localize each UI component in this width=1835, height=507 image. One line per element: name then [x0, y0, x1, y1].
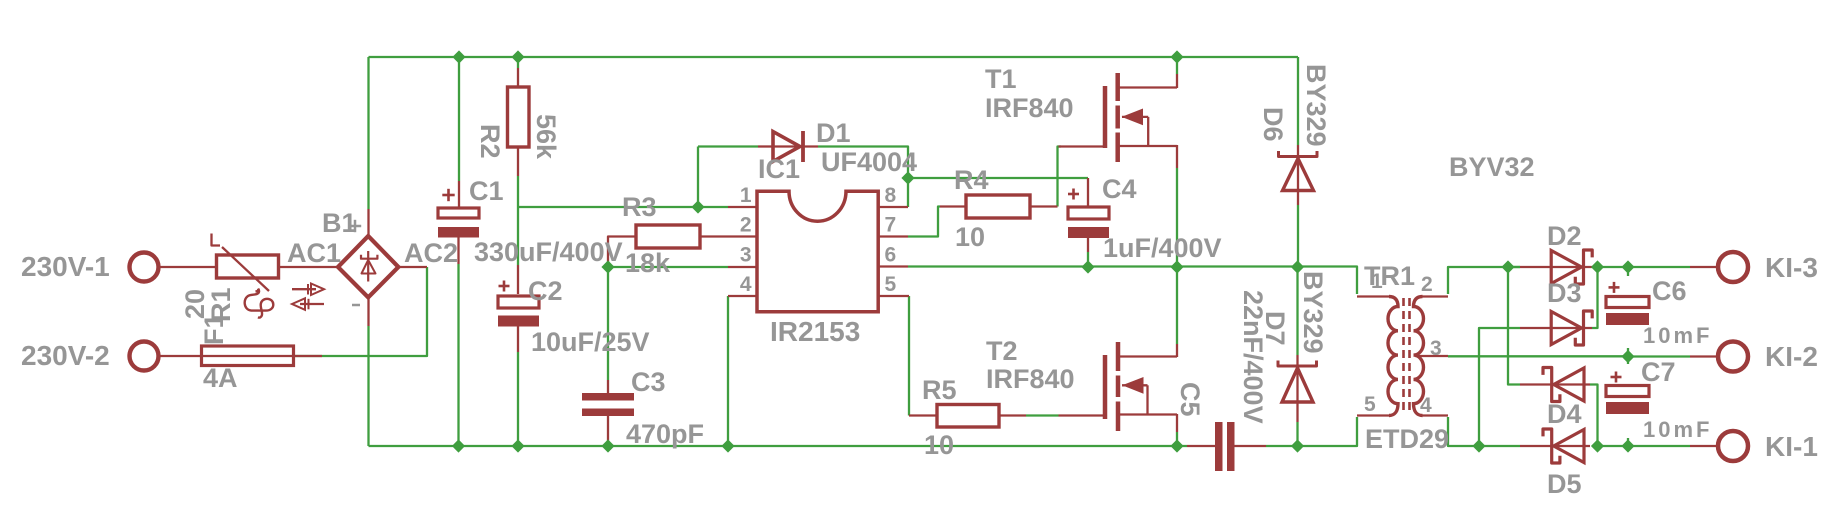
- capacitor C4 top plate: [1068, 207, 1109, 219]
- lead R3 left elbow: [608, 237, 636, 266]
- svg-text:KI-1: KI-1: [1765, 431, 1818, 462]
- wire fuse row: [294, 355, 322, 357]
- junction node 9: [1291, 260, 1304, 273]
- junction node 12: [1621, 260, 1634, 273]
- wire R3 node drop to C3: [607, 267, 609, 380]
- diode D3: [1551, 312, 1581, 345]
- lead TR1 pin4: [1423, 414, 1449, 416]
- lead pad KI-1: [1690, 445, 1717, 447]
- wire D1 cathode to VB corner: [818, 147, 908, 208]
- junction node 7: [1081, 260, 1094, 273]
- lead T1 drain top: [1176, 74, 1178, 88]
- junction node 10: [1501, 260, 1514, 273]
- wire pin5 drop to R5: [908, 296, 910, 416]
- wire R2 bottom to node: [517, 176, 519, 207]
- junction node 3: [1170, 50, 1183, 63]
- lead D5 through: [1545, 445, 1590, 447]
- svg-text:2: 2: [1421, 273, 1433, 296]
- lead D2 through: [1552, 266, 1592, 268]
- svg-text:56k: 56k: [531, 114, 561, 160]
- svg-text:4: 4: [1420, 394, 1432, 417]
- transistor T1 drain lead: [1118, 86, 1177, 88]
- lead D3 anode: [1520, 327, 1552, 329]
- bridge B1 inner diode: [367, 251, 369, 282]
- resistor R5 body: [937, 405, 999, 428]
- svg-text:1uF/400V: 1uF/400V: [1103, 233, 1222, 263]
- wire D5 row: [1479, 445, 1520, 447]
- svg-text:6: 6: [885, 244, 897, 267]
- wire B1 plus riser: [367, 57, 369, 209]
- capacitor C1 bottom plate: [438, 227, 479, 238]
- junction node 16: [721, 439, 734, 452]
- lead pad KI-2: [1690, 355, 1717, 357]
- junction node 8: [1170, 260, 1183, 273]
- lead C4 top stub: [1087, 178, 1089, 207]
- wire C7 top link: [1627, 357, 1629, 365]
- wire TR1 pin3 tap row: [1448, 355, 1628, 357]
- capacitor C2 bottom plate: [498, 316, 539, 327]
- diode D6 triangle: [1283, 159, 1314, 191]
- lead TR1 pin3 tap: [1415, 355, 1448, 357]
- svg-text:AC1: AC1: [287, 238, 341, 268]
- capacitor C3 top plate: [582, 393, 634, 401]
- svg-text:C5: C5: [1175, 382, 1205, 417]
- svg-text:R3: R3: [622, 192, 657, 222]
- capacitor C6 plus: [1609, 286, 1620, 289]
- lead IC pin4: [728, 295, 757, 297]
- svg-text:230V-1: 230V-1: [21, 251, 110, 282]
- transistor T2 drain lead: [1118, 355, 1177, 357]
- lead C5 left stub: [1187, 445, 1215, 447]
- wire C4 bottom to VS: [1087, 252, 1089, 267]
- fuse F1 body: [202, 346, 294, 366]
- svg-text:8: 8: [885, 184, 897, 207]
- svg-text:T2: T2: [986, 336, 1018, 366]
- svg-text:22nF/400V: 22nF/400V: [1238, 290, 1268, 424]
- svg-text:1: 1: [1371, 270, 1383, 293]
- wire VB node to C4 top: [908, 177, 1088, 179]
- svg-text:D2: D2: [1547, 221, 1582, 251]
- svg-text:10mF: 10mF: [1643, 417, 1712, 442]
- wire KI-1 lead: [1628, 445, 1690, 447]
- capacitor C4 plus: [1068, 193, 1079, 196]
- lead D4 cathode: [1520, 383, 1545, 385]
- lead IC pin8: [878, 206, 908, 208]
- transistor T2 source lead: [1118, 413, 1177, 415]
- wire C1 top riser: [458, 57, 460, 181]
- lead R4 right stub: [1030, 205, 1058, 207]
- capacitor C1 plus: [442, 194, 454, 197]
- bridge B1 diamond: [338, 236, 398, 297]
- pad KI-2: [1718, 342, 1748, 372]
- wire pin4-node riser to D3: [1479, 328, 1520, 446]
- svg-text:IRF840: IRF840: [986, 364, 1075, 394]
- transformer TR1 primary coil: [1388, 297, 1398, 416]
- thermistor R1 body: [217, 255, 279, 278]
- lead TR1 pin1: [1357, 295, 1389, 297]
- capacitor C5 right plate: [1227, 422, 1235, 471]
- svg-text:KI-3: KI-3: [1765, 252, 1818, 283]
- lead R2 bottom stub: [517, 146, 519, 176]
- svg-text:C6: C6: [1652, 276, 1687, 306]
- svg-text:ETD29: ETD29: [1365, 424, 1449, 454]
- svg-text:C4: C4: [1102, 174, 1137, 204]
- wire T1 source drop: [1176, 168, 1178, 267]
- capacitor C6 top plate: [1606, 297, 1649, 308]
- junction node 14: [511, 439, 524, 452]
- junction node 18: [1291, 439, 1304, 452]
- diode D1 triangle: [773, 132, 800, 162]
- lead pad KI-3: [1690, 266, 1717, 268]
- lead IC pin3: [728, 266, 757, 268]
- wire R5 to T2 gate link: [1026, 414, 1059, 416]
- capacitor C7 top plate: [1606, 386, 1649, 397]
- resistor R4 body: [966, 195, 1030, 218]
- lead T2 source bottom: [1176, 414, 1178, 432]
- wire pin4 drop to ground: [727, 296, 729, 446]
- junction node 21: [1621, 439, 1634, 452]
- wire KI-2 lead: [1628, 355, 1690, 357]
- lead B1 AC2 stub: [397, 266, 427, 268]
- wire primary return riser: [1298, 417, 1357, 446]
- lead B1 plus stub: [367, 209, 369, 237]
- svg-text:5: 5: [1364, 393, 1376, 416]
- lead TR1 pin5: [1357, 414, 1389, 416]
- wire C1 bottom drop: [457, 264, 459, 446]
- wire T2 drain riser: [1176, 267, 1178, 344]
- lead F1 right stub: [294, 355, 322, 357]
- svg-text:D3: D3: [1547, 278, 1582, 308]
- capacitor C4 bottom plate: [1068, 227, 1109, 238]
- svg-text:BYV32: BYV32: [1449, 152, 1535, 182]
- lead IC pin7: [878, 235, 908, 237]
- wire TR1 pin2 riser: [1448, 267, 1520, 294]
- lead C1 bottom stub: [457, 237, 459, 264]
- wire D1 anode lead: [698, 145, 758, 147]
- wire KI-3 lead: [1628, 266, 1690, 268]
- lead R3 right / IC pin2: [700, 235, 757, 237]
- lead IC pin6: [878, 265, 908, 267]
- wire D3 cathode elbow: [1592, 267, 1598, 328]
- lead C3 top stub: [607, 380, 609, 393]
- diode D7 through line: [1296, 366, 1298, 402]
- wire D2 cathode to C6 node: [1592, 266, 1628, 268]
- transformer TR1 core: [1402, 298, 1405, 414]
- lead D7 bottom stub: [1296, 402, 1298, 422]
- wire node to C2: [517, 207, 519, 265]
- wire D4 anode elbow: [1590, 385, 1598, 447]
- junction node 22: [1621, 350, 1634, 363]
- wire top rail +310V: [369, 56, 1299, 58]
- svg-text:IC1: IC1: [758, 154, 800, 184]
- svg-text:2: 2: [740, 214, 752, 237]
- transistor T2 body arrow: [1122, 384, 1148, 386]
- lead T2 drain top: [1176, 344, 1178, 357]
- wire VCC row to pin1: [518, 206, 728, 208]
- lead R5 right stub: [999, 414, 1026, 416]
- lead T1 gate stub: [1059, 145, 1106, 147]
- svg-text:KI-2: KI-2: [1765, 341, 1818, 372]
- lead D1 cathode stub: [772, 145, 818, 147]
- wire VS row pin6 to TR1: [908, 267, 1357, 295]
- svg-text:1: 1: [740, 184, 752, 207]
- wire C6 bottom link: [1627, 348, 1629, 357]
- transformer TR1 secondary coil: [1414, 297, 1424, 416]
- wire C5 right segment: [1266, 445, 1298, 447]
- wire C7 bottom link: [1627, 438, 1629, 446]
- pad 230V-2: [130, 342, 159, 371]
- junction node 17: [1170, 439, 1183, 452]
- svg-text:4: 4: [740, 273, 752, 296]
- transistor T1 body arrow: [1122, 116, 1148, 118]
- wire AC2 to fuse vertical: [322, 267, 427, 356]
- svg-text:3: 3: [1430, 337, 1442, 360]
- transistor T2 gate bar: [1103, 355, 1108, 419]
- capacitor C3 bottom plate: [582, 409, 634, 417]
- lead R4 left stub: [940, 205, 966, 207]
- wire D5 anode to C7 node: [1592, 445, 1628, 447]
- wire R4 to T1 gate riser: [1058, 147, 1062, 207]
- junction node 13: [452, 439, 465, 452]
- capacitor C2 top plate: [498, 296, 539, 308]
- capacitor C6 bottom plate: [1606, 313, 1649, 325]
- svg-text:3: 3: [740, 244, 752, 267]
- lead IC pin1: [728, 206, 757, 208]
- svg-text:T1: T1: [985, 64, 1017, 94]
- svg-text:D6: D6: [1258, 107, 1288, 142]
- diode D7 cathode bar: [1278, 361, 1317, 367]
- wire D7 top from VS: [1296, 267, 1298, 355]
- lead R1 to bridge AC1: [279, 266, 340, 268]
- wire pin7 to R4: [908, 207, 940, 237]
- svg-text:4A: 4A: [203, 363, 238, 393]
- junction node 19: [1472, 439, 1485, 452]
- pad KI-3: [1718, 252, 1748, 282]
- lead B1 minus stub: [367, 297, 369, 326]
- fuse F1 midline: [202, 355, 294, 357]
- arrow right near R1: [292, 288, 316, 290]
- capacitor C1 top plate: [438, 208, 479, 218]
- wire R2 top: [517, 57, 519, 68]
- wire D1 anode riser: [697, 147, 699, 208]
- lead D5 cathode: [1520, 445, 1545, 447]
- lead C3 bottom stub: [607, 416, 609, 444]
- svg-text:10uF/25V: 10uF/25V: [531, 327, 650, 357]
- capacitor C5 left plate: [1215, 422, 1223, 471]
- transistor T1 gate bar: [1103, 86, 1108, 148]
- lead D4 through: [1545, 383, 1590, 385]
- svg-text:R5: R5: [922, 375, 957, 405]
- svg-text:IRF840: IRF840: [985, 93, 1074, 123]
- svg-text:C1: C1: [469, 176, 504, 206]
- transistor T1 channel dashes: [1115, 73, 1120, 101]
- svg-text:5: 5: [885, 273, 897, 296]
- lead D1 anode stub: [758, 145, 772, 147]
- transistor T2 channel dashes: [1116, 342, 1121, 371]
- svg-text:D5: D5: [1547, 469, 1582, 499]
- thermistor R1 diagonal: [212, 234, 221, 246]
- arrow left near R1: [300, 303, 324, 305]
- svg-text:D1: D1: [816, 118, 851, 148]
- junction node 6: [601, 260, 614, 273]
- lead pad 230V-1 to R1: [160, 266, 216, 268]
- svg-text:BY329: BY329: [1298, 271, 1328, 354]
- lead D2 anode: [1520, 266, 1552, 268]
- junction node 11: [1591, 260, 1604, 273]
- wire TR1 pin4 drop: [1448, 417, 1479, 446]
- junction node 5: [901, 171, 914, 184]
- diode D7 triangle: [1282, 368, 1313, 402]
- capacitor C7 plus: [1611, 376, 1622, 379]
- bridge B1 plus mark: [349, 225, 361, 228]
- wire C6 top link: [1627, 267, 1629, 276]
- lead R5 left stub: [909, 414, 937, 416]
- svg-text:F1: F1: [199, 313, 229, 345]
- lead C1 top stub: [458, 181, 460, 208]
- wire secondary top to D2 node: [1508, 266, 1520, 268]
- svg-text:230V-2: 230V-2: [21, 340, 110, 371]
- diode D1 cathode bar: [801, 131, 805, 162]
- svg-text:470pF: 470pF: [626, 419, 704, 449]
- lead TR1 pin2: [1423, 295, 1449, 297]
- pad KI-1: [1718, 431, 1748, 461]
- svg-text:18k: 18k: [625, 248, 671, 278]
- capacitor C7 bottom plate: [1606, 402, 1649, 414]
- svg-text:C7: C7: [1641, 357, 1676, 387]
- wire T1 drain riser: [1176, 57, 1178, 74]
- junction node 2: [511, 50, 524, 63]
- wire B1 minus drop: [367, 326, 369, 446]
- thermistor R1 theta symbol: [245, 289, 274, 318]
- diode D6 through line: [1297, 157, 1299, 194]
- lead T1 source bottom: [1176, 145, 1178, 168]
- capacitor C2 plus: [499, 285, 510, 288]
- transistor T1 source lead: [1118, 145, 1177, 147]
- wire D2/D4 link riser: [1508, 267, 1520, 385]
- wire T2 source drop: [1176, 432, 1178, 446]
- wire D7 bottom: [1296, 422, 1298, 446]
- wire C2 bottom drop: [517, 352, 519, 446]
- junction node 1: [452, 50, 465, 63]
- lead C2 bottom stub: [517, 325, 519, 352]
- svg-text:10: 10: [955, 222, 985, 252]
- svg-text:IR2153: IR2153: [770, 316, 860, 347]
- svg-text:B1: B1: [322, 208, 357, 238]
- junction node 20: [1591, 439, 1604, 452]
- svg-text:7: 7: [885, 214, 897, 237]
- wire D6 bottom to VS: [1297, 205, 1299, 267]
- junction node 4: [691, 200, 704, 213]
- diode D4: [1554, 368, 1584, 401]
- lead R2 top stub: [517, 68, 519, 87]
- svg-text:C2: C2: [528, 276, 563, 306]
- wire D6 top: [1297, 57, 1299, 145]
- lead D3 through: [1552, 327, 1592, 329]
- lead D6 bottom stub: [1297, 193, 1299, 205]
- svg-text:10: 10: [924, 430, 954, 460]
- junction node 15: [601, 439, 614, 452]
- svg-text:AC2: AC2: [404, 238, 458, 268]
- wire C3 bottom: [607, 444, 609, 446]
- svg-text:UF4004: UF4004: [821, 147, 917, 177]
- svg-text:10mF: 10mF: [1643, 323, 1712, 348]
- diode D2: [1551, 251, 1581, 284]
- lead D7 top stub: [1296, 355, 1298, 366]
- resistor R3 body: [636, 225, 700, 248]
- bridge B1 minus mark: [352, 304, 360, 307]
- lead C2 top stub: [517, 265, 519, 294]
- lead pad 230V-2 to F1: [160, 355, 202, 357]
- lead C4 bottom stub: [1087, 238, 1089, 252]
- lead C5 right stub: [1234, 445, 1266, 447]
- lead T2 gate stub: [1059, 414, 1106, 416]
- op-amp IC1 IR2153 body: [757, 191, 878, 312]
- wire pin3 row: [608, 266, 728, 268]
- lead IC pin5: [878, 295, 909, 297]
- svg-text:C3: C3: [631, 367, 666, 397]
- svg-text:BY329: BY329: [1301, 64, 1331, 147]
- pad 230V-1: [130, 253, 159, 282]
- svg-text:330uF/400V: 330uF/400V: [474, 237, 623, 267]
- svg-text:D4: D4: [1547, 399, 1582, 429]
- resistor R2 body: [508, 87, 530, 147]
- lead D6 top stub: [1297, 145, 1299, 157]
- diode D5: [1554, 430, 1584, 463]
- diode D6 cathode bar: [1279, 151, 1318, 157]
- wire bottom ground rail: [369, 445, 1188, 447]
- svg-text:R2: R2: [475, 124, 505, 159]
- svg-text:R4: R4: [954, 165, 989, 195]
